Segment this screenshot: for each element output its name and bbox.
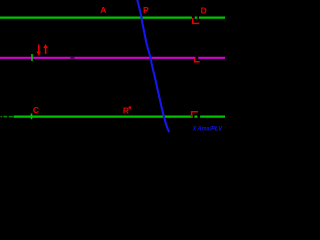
svg-text:A: A	[100, 5, 106, 15]
svg-text:D: D	[201, 6, 207, 16]
line L3 (bottom green parallel line) dashed dim start	[1, 116, 13, 118]
up arrow above line L2	[43, 44, 48, 54]
svg-text:C: C	[33, 105, 39, 115]
line L3 (bottom green parallel line)	[14, 115, 226, 117]
line L1 (top green parallel line)	[0, 17, 225, 19]
line L2 (middle magenta line)	[0, 57, 225, 59]
tick mark on line L2	[31, 54, 33, 61]
svg-text:P: P	[143, 5, 149, 15]
angle mark below L2	[195, 57, 198, 60]
angle mark below L1	[192, 16, 195, 19]
dark patch on line L2	[71, 57, 75, 60]
transversal (blue line through P)	[137, 0, 169, 131]
svg-text:X Ama/PŁV: X Ama/PŁV	[192, 126, 224, 133]
tick mark on line L3	[31, 114, 33, 120]
down arrow above line L2	[36, 45, 41, 56]
superscript square after R	[129, 106, 131, 108]
angle mark above L3	[193, 115, 195, 118]
svg-text:R: R	[123, 106, 129, 116]
